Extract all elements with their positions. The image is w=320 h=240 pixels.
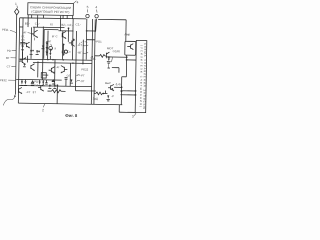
svg-text:С4: С4 (34, 83, 38, 87)
svg-text:ЗаД: ЗаД (90, 56, 95, 60)
svg-text:С2,-: С2,- (76, 22, 81, 26)
svg-text:С1;-: С1;- (35, 22, 40, 26)
svg-text:РD: РD (7, 49, 11, 53)
svg-text:РЕ22: РЕ22 (81, 67, 88, 71)
svg-text:РЕ11: РЕ11 (2, 28, 9, 32)
svg-text:СТ: СТ (7, 64, 11, 68)
svg-text:8Г-С: 8Г-С (52, 34, 58, 38)
svg-text:9Т: 9Т (33, 90, 37, 94)
svg-text:Амр: Амр (124, 32, 130, 36)
svg-text:Фиг. 8: Фиг. 8 (65, 113, 78, 118)
svg-text:АГ-: АГ- (23, 30, 27, 34)
svg-text:-ЕТ: -ЕТ (78, 43, 83, 47)
svg-text:ЗаД: ЗаД (93, 97, 98, 101)
svg-text:(СДВИГОВЫЙ РЕГИСТР): (СДВИГОВЫЙ РЕГИСТР) (31, 10, 69, 15)
svg-text:В1;-: В1;- (25, 21, 30, 25)
svg-text:РЕ12: РЕ12 (0, 78, 7, 82)
svg-text:4: 4 (77, 0, 79, 4)
svg-text:5: 5 (87, 5, 89, 9)
svg-text:ВТ: ВТ (6, 56, 10, 60)
svg-text:2: 2 (42, 108, 44, 112)
svg-text:С(L8): С(L8) (113, 49, 120, 53)
svg-text:-ВТ: -ВТ (77, 51, 82, 55)
svg-text:Сб: Сб (67, 73, 71, 77)
svg-text:В2;-: В2;- (61, 23, 66, 27)
svg-text:-FТ: -FТ (80, 73, 85, 77)
svg-text:(L4): (L4) (116, 82, 121, 86)
svg-text:-Р: -Р (111, 94, 114, 98)
svg-text:3: 3 (132, 115, 134, 119)
svg-text:4: 4 (95, 5, 97, 9)
svg-text:-СТ: -СТ (26, 90, 31, 94)
svg-text:-Р: -Р (52, 71, 55, 75)
svg-text:ВыУ: ВыУ (105, 81, 111, 85)
svg-text:-РD1: -РD1 (95, 40, 102, 44)
svg-text:1: 1 (15, 2, 17, 6)
svg-text:С2;-: С2;- (68, 23, 73, 27)
svg-text:АГ-: АГ- (56, 65, 60, 69)
svg-text:-9Т: -9Т (80, 79, 85, 83)
